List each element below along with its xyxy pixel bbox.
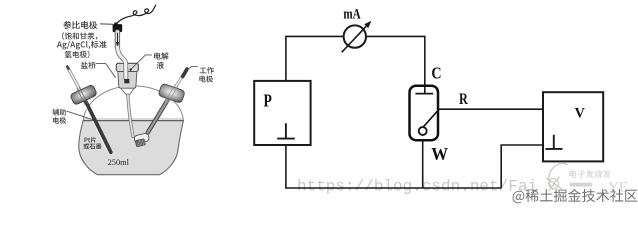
label Pt片 <box>85 137 97 143</box>
auxiliary electrode collar (stopper) <box>70 84 98 105</box>
wire R terminal to voltmeter <box>435 108 544 110</box>
auxiliary electrode upper thin rod <box>68 67 86 100</box>
label C <box>431 64 441 82</box>
svg-text:250ml: 250ml <box>108 158 130 167</box>
elecfans watermark logo swoosh <box>546 164 568 191</box>
elecfans watermark text 电子发烧友 <box>570 170 611 178</box>
watermark @稀土掘金技术社区 <box>513 189 638 203</box>
label 液 (electrolyte line2) <box>157 62 164 69</box>
label 或石墨 <box>84 143 102 149</box>
voltmeter box V <box>543 92 603 161</box>
working electrode collar (stopper) <box>158 83 185 103</box>
svg-text:R: R <box>459 91 469 108</box>
label mA <box>343 5 361 22</box>
potentiostat box P <box>254 81 310 145</box>
auxiliary electrode dark rod highlight <box>84 104 108 153</box>
leader line: auxiliary electrode label <box>67 111 93 119</box>
leader line: electrolyte label <box>131 55 152 69</box>
leader line: salt bridge label <box>96 63 116 77</box>
rod lines across left collar face <box>77 87 88 104</box>
leader line: reference electrode label <box>101 23 113 25</box>
svg-text:C: C <box>431 64 441 82</box>
label R <box>459 91 469 108</box>
working electrode tip clamp <box>134 133 150 144</box>
wire P bottom down <box>285 145 287 188</box>
label W <box>431 145 448 164</box>
wire W terminal down to rail <box>422 135 424 188</box>
wire P top to ammeter <box>286 36 344 81</box>
liquid surface second line (meniscus) <box>84 118 183 120</box>
rod lines across right collar face <box>165 84 178 103</box>
bottom rail wire <box>285 187 501 189</box>
cup funnel to capillary <box>121 89 134 95</box>
reference electrode cap (black) <box>113 24 123 32</box>
svg-text:mA: mA <box>343 5 361 22</box>
counter electrode plate in cell <box>424 86 426 94</box>
label 工作 (working line1) <box>200 67 214 74</box>
label 辅助 (auxiliary line1) <box>52 109 66 116</box>
working electrode dark top connector <box>183 69 187 77</box>
label Ag/AgCl,标准 <box>57 41 107 50</box>
label 电解 (electrolyte line1) <box>154 52 168 59</box>
ground symbol in V <box>546 135 563 149</box>
luggin capillary <box>128 95 133 137</box>
label 电极 (working line2) <box>199 76 213 83</box>
wire rail up to voltmeter <box>501 145 543 188</box>
liquid surface line <box>83 120 183 122</box>
electrochemical cell box <box>410 86 439 141</box>
svg-text:YE: YE <box>608 179 628 195</box>
ammeter mA <box>344 25 366 47</box>
label 氢电极） <box>65 51 90 58</box>
ground symbol in P <box>277 123 295 138</box>
label 盐桥 (salt bridge) <box>81 62 96 69</box>
working electrode upper thin rod <box>170 71 186 97</box>
wire ammeter to cell box C <box>366 36 425 93</box>
working electrode contact (circle) in cell <box>419 127 427 135</box>
electrolyte cup rim <box>116 63 138 71</box>
elecfans watermark url <box>570 183 593 187</box>
electrolyte cup body <box>118 72 137 89</box>
reference electrode glass tube <box>115 32 120 47</box>
flask body with electrolyte liquid <box>79 121 184 175</box>
working electrode lower rod <box>148 97 170 133</box>
svg-text:W: W <box>431 145 448 164</box>
auxiliary electrode dark rod <box>86 101 111 152</box>
label 电极 (auxiliary line2) <box>53 117 66 124</box>
working electrode plate (mesh) <box>135 139 145 147</box>
svg-text:P: P <box>264 92 273 111</box>
reference electrode tip in cup <box>124 79 129 83</box>
reference electrode lead (diagonal) in cell <box>424 111 438 126</box>
flask dome outline <box>83 86 183 121</box>
reference electrode lead wire coil <box>116 5 155 24</box>
inner electrode wire with arrow in glass tube <box>117 33 119 43</box>
leader line: working electrode label <box>188 67 198 70</box>
label 参比电极 (reference electrode) <box>63 21 97 29</box>
label （饱和甘汞， <box>62 32 97 39</box>
svg-text:V: V <box>575 106 586 122</box>
